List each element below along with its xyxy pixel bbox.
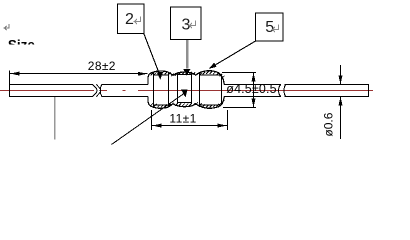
svg-text:28±2: 28±2 [88, 59, 116, 73]
svg-text:2: 2 [125, 11, 134, 28]
dimension ø4.5 arrow bottom [252, 99, 256, 108]
wire break symbol left [93, 85, 102, 97]
leader into core (diagonal line from lower left) [112, 94, 184, 145]
body middle rect edges [178, 75, 192, 103]
callout box 5 [256, 13, 284, 41]
leader into core arrowhead [181, 90, 188, 98]
wire right lead outline [224, 84, 369, 97]
body hatch ticks bottom [151, 100, 225, 107]
callout 3 leader [186, 40, 188, 69]
svg-text:3: 3 [182, 16, 191, 33]
body section line B [168, 72, 170, 107]
body section line D [191, 73, 193, 103]
dimension ø0.6 arrow top [339, 76, 343, 85]
svg-text:ø4.5±0.5: ø4.5±0.5 [226, 82, 276, 96]
dimension ø0.6 line bottom [340, 97, 342, 140]
svg-text:5: 5 [265, 19, 274, 36]
body hatch ticks top [151, 71, 225, 78]
dimension 28±2 extension line [9, 71, 11, 85]
callout 5 leader [211, 41, 256, 68]
callout 2 arrowhead [157, 72, 163, 80]
body section line A [153, 72, 155, 107]
wire left lead outline [10, 84, 149, 97]
callout box 3 [171, 7, 202, 40]
dimension ø0.6 arrow bottom [339, 97, 343, 106]
dimension ø4.5 extension lines [222, 72, 256, 74]
white mask over Size bottom [0, 45, 60, 63]
dimension 28±2 arrow right [138, 72, 147, 76]
centerline (red axis) [0, 90, 373, 92]
dimension 11±1 arrow left [152, 124, 161, 128]
body section line E [199, 72, 201, 107]
wire break symbol right [279, 85, 286, 97]
callout 3 arrowhead [183, 69, 190, 76]
body section line F (right cap inner) [221, 76, 223, 105]
dimension 28±2 line [10, 73, 148, 75]
body section left bead rect [154, 75, 169, 105]
body right bead rect edges [200, 75, 222, 105]
callout box 2 [118, 4, 145, 34]
dimension 11±1 arrow right [218, 124, 227, 128]
dimension 11±1 extension lines [151, 110, 153, 130]
dimension ø4.5 vertical line [253, 73, 255, 108]
svg-text:11±1: 11±1 [169, 112, 196, 126]
callout 2 leader [144, 34, 159, 73]
dimension ø0.6 line top [340, 65, 342, 85]
paragraph return mark top-left [4, 24, 9, 30]
body section line C [177, 74, 179, 104]
dimension 28±2 arrow left [10, 72, 19, 76]
body sleeve outline [148, 71, 224, 108]
callout 5 return mark [272, 25, 278, 33]
dimension ø4.5 arrow top [252, 73, 256, 82]
svg-text:ø0.6: ø0.6 [322, 112, 336, 136]
callout 2 return mark [134, 17, 140, 25]
gray leader on left lead [54, 97, 56, 140]
dimension 11±1 line [152, 125, 227, 127]
callout 3 return mark [189, 21, 195, 29]
callout 5 arrowhead [209, 63, 217, 69]
